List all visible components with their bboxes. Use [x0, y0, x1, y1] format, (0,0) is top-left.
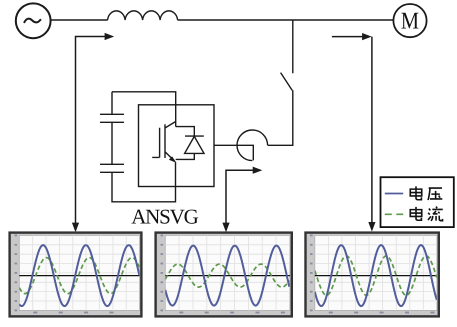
svg-text:M: M — [401, 8, 419, 34]
svg-text:ANSVG: ANSVG — [131, 205, 198, 229]
